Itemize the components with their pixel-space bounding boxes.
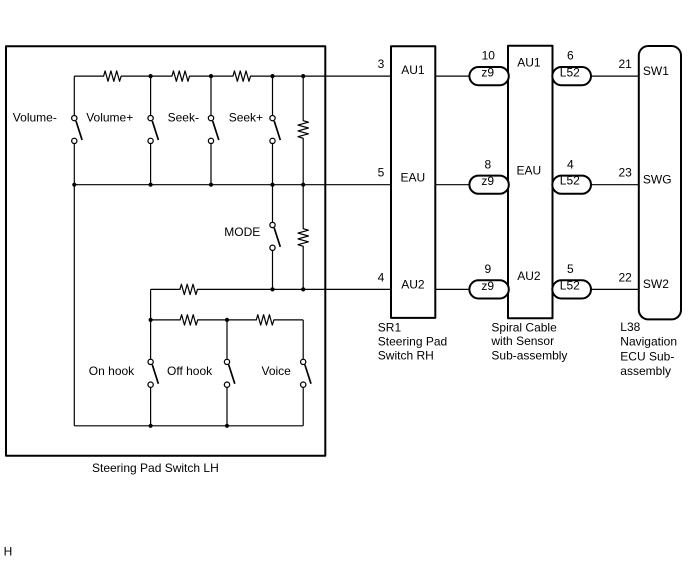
svg-text:ECU Sub-: ECU Sub- bbox=[620, 349, 674, 363]
svg-text:AU2: AU2 bbox=[517, 269, 541, 283]
node junction bbox=[209, 74, 213, 78]
node junction bbox=[149, 318, 153, 322]
connector oval L52 bbox=[552, 176, 591, 194]
svg-text:Voice: Voice bbox=[262, 364, 292, 378]
switch: Voice bbox=[301, 320, 311, 426]
svg-text:assembly: assembly bbox=[620, 364, 671, 378]
svg-text:AU2: AU2 bbox=[401, 277, 425, 291]
switch: Off hook bbox=[224, 320, 234, 426]
svg-text:On hook: On hook bbox=[89, 364, 135, 378]
node junction bbox=[270, 287, 274, 291]
wire: hook switch row with two resistors bbox=[151, 315, 304, 325]
node junction bbox=[301, 183, 305, 187]
connector oval z9 bbox=[469, 280, 508, 298]
switch: MODE bbox=[270, 185, 280, 290]
node junction bbox=[149, 424, 153, 428]
svg-text:5: 5 bbox=[567, 262, 574, 276]
wire: AU1 top rail with resistors bbox=[74, 71, 391, 81]
wire: SR1 to spiral cable connector bbox=[435, 184, 469, 186]
node junction bbox=[225, 424, 229, 428]
wire: L52 connector to navigation ECU bbox=[591, 288, 639, 290]
svg-text:Seek-: Seek- bbox=[168, 111, 199, 125]
svg-text:L52: L52 bbox=[560, 65, 580, 79]
connector oval z9 bbox=[469, 176, 508, 194]
svg-text:SR1: SR1 bbox=[378, 320, 402, 334]
node junction bbox=[270, 74, 274, 78]
wire: L52 connector to navigation ECU bbox=[591, 184, 639, 186]
wire: SR1 to spiral cable connector bbox=[435, 75, 469, 77]
svg-text:z9: z9 bbox=[481, 279, 494, 293]
svg-text:4: 4 bbox=[567, 157, 574, 171]
wire: AU2 rail with resistor bbox=[151, 284, 391, 294]
svg-text:21: 21 bbox=[618, 57, 632, 71]
svg-text:22: 22 bbox=[618, 270, 632, 284]
switch: On hook bbox=[148, 320, 158, 426]
wire: bottom bus bbox=[74, 425, 303, 427]
svg-text:AU1: AU1 bbox=[517, 55, 541, 69]
svg-text:23: 23 bbox=[618, 166, 632, 180]
svg-text:with Sensor: with Sensor bbox=[490, 334, 554, 348]
svg-text:L52: L52 bbox=[560, 174, 580, 188]
wire: EAU middle rail bbox=[74, 184, 391, 186]
svg-text:Steering Pad: Steering Pad bbox=[378, 334, 447, 348]
svg-text:Navigation: Navigation bbox=[620, 335, 677, 349]
svg-text:10: 10 bbox=[482, 49, 496, 63]
connector oval L52 bbox=[552, 280, 591, 298]
svg-text:9: 9 bbox=[484, 262, 491, 276]
component box: SR1 Steering Pad Switch RH bbox=[391, 46, 435, 318]
switch: Seek- bbox=[208, 76, 218, 185]
switch: Volume- bbox=[72, 76, 82, 185]
svg-text:L38: L38 bbox=[620, 320, 640, 334]
svg-text:Spiral Cable: Spiral Cable bbox=[491, 320, 557, 334]
node junction bbox=[72, 183, 76, 187]
node junction bbox=[209, 183, 213, 187]
svg-text:Volume+: Volume+ bbox=[86, 111, 133, 125]
svg-text:SW2: SW2 bbox=[643, 277, 669, 291]
svg-text:L52: L52 bbox=[560, 279, 580, 293]
svg-text:Volume-: Volume- bbox=[13, 111, 57, 125]
svg-text:Sub-assembly: Sub-assembly bbox=[491, 349, 567, 363]
node junction bbox=[301, 74, 305, 78]
svg-text:Seek+: Seek+ bbox=[229, 111, 263, 125]
svg-text:EAU: EAU bbox=[517, 164, 542, 178]
svg-text:z9: z9 bbox=[481, 66, 494, 80]
svg-text:H: H bbox=[4, 545, 13, 559]
node junction bbox=[270, 183, 274, 187]
node junction bbox=[149, 183, 153, 187]
connector oval z9 bbox=[469, 67, 508, 85]
svg-text:5: 5 bbox=[378, 166, 385, 180]
svg-text:8: 8 bbox=[484, 157, 491, 171]
svg-text:Off hook: Off hook bbox=[167, 364, 213, 378]
svg-text:z9: z9 bbox=[481, 174, 494, 188]
box: Steering Pad Switch LH enclosure bbox=[6, 46, 325, 456]
svg-text:Steering Pad Switch LH: Steering Pad Switch LH bbox=[92, 461, 219, 475]
svg-text:EAU: EAU bbox=[401, 171, 426, 185]
wire: AU2 corner down to hook row bbox=[150, 289, 152, 320]
wire: SR1 to spiral cable connector bbox=[435, 288, 469, 290]
node junction bbox=[301, 287, 305, 291]
switch: Seek+ bbox=[270, 76, 280, 185]
svg-text:Switch RH: Switch RH bbox=[378, 349, 434, 363]
node junction bbox=[149, 74, 153, 78]
node junction bbox=[225, 318, 229, 322]
svg-text:6: 6 bbox=[567, 49, 574, 63]
svg-text:3: 3 bbox=[378, 57, 385, 71]
connector oval L52 bbox=[552, 67, 591, 85]
wire: L52 connector to navigation ECU bbox=[591, 75, 639, 77]
svg-text:MODE: MODE bbox=[224, 225, 260, 239]
svg-text:SW1: SW1 bbox=[643, 64, 669, 78]
svg-text:AU1: AU1 bbox=[401, 63, 425, 77]
wire: left bus Volume- column down to bottom bus bbox=[73, 185, 75, 426]
switch: Volume+ bbox=[148, 76, 158, 185]
svg-text:SWG: SWG bbox=[643, 172, 672, 186]
component box: Spiral Cable with Sensor Sub-assembly bbox=[508, 46, 553, 319]
component box: L38 Navigation ECU Sub-assembly bbox=[639, 46, 681, 319]
svg-text:4: 4 bbox=[378, 270, 385, 284]
resistor: pull-down EAU to AU2 bbox=[298, 185, 308, 290]
resistor: pull-down AU1 to EAU bbox=[298, 76, 308, 185]
